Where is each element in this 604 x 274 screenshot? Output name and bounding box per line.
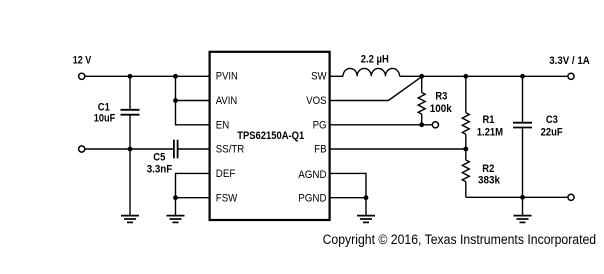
wire bottom right rail	[466, 196, 568, 198]
svg-text:SS/TR: SS/TR	[216, 144, 245, 156]
node junction C1 top	[128, 74, 133, 79]
ground symbol DEF/FSW	[167, 216, 185, 223]
svg-text:R3: R3	[435, 90, 447, 102]
ground symbol left	[121, 216, 139, 223]
svg-text:FB: FB	[314, 144, 327, 156]
wire DEF loop	[176, 173, 210, 197]
inductor L1 2.2uH	[343, 53, 400, 76]
wire PGND	[331, 197, 367, 199]
node junction SW/R3	[419, 74, 424, 79]
svg-text:C3: C3	[546, 114, 558, 126]
wire FB	[331, 148, 466, 150]
capacitor C5	[147, 140, 209, 176]
svg-text:100k: 100k	[430, 103, 453, 115]
wire FSW	[176, 197, 210, 199]
wire SW to inductor	[331, 75, 344, 77]
node junction AVIN branch top	[173, 74, 178, 79]
terminal 3.3V output	[568, 73, 574, 79]
svg-text:2.2 µH: 2.2 µH	[361, 53, 389, 65]
svg-text:1.21M: 1.21M	[477, 127, 503, 139]
node junction AGND/PGND	[364, 195, 369, 200]
resistor R2 383k	[462, 149, 500, 197]
wire PGND to ground	[365, 198, 367, 216]
wire AVIN horizontal	[176, 100, 210, 102]
node junction C3 bottom	[520, 195, 525, 200]
terminal 12V input	[79, 73, 85, 79]
terminal PG output	[432, 122, 438, 128]
wire input rail to PVIN	[85, 75, 209, 77]
svg-text:AGND: AGND	[298, 169, 326, 181]
svg-text:VOS: VOS	[306, 95, 327, 107]
wire C1 to ground	[129, 149, 131, 216]
wire inductor to output rail	[400, 75, 568, 77]
wire VOS with diagonal	[331, 77, 421, 100]
svg-text:TPS62150A-Q1: TPS62150A-Q1	[237, 130, 304, 142]
wire PG	[331, 124, 433, 126]
svg-text:C5: C5	[153, 152, 165, 164]
svg-text:AVIN: AVIN	[216, 95, 238, 107]
svg-text:R1: R1	[483, 114, 495, 126]
svg-text:3.3V / 1A: 3.3V / 1A	[549, 55, 590, 67]
node junction DEF/FSW	[173, 195, 178, 200]
svg-text:DEF: DEF	[216, 168, 236, 180]
svg-text:12 V: 12 V	[73, 54, 92, 66]
wire AVIN/EN vertical	[176, 76, 210, 125]
svg-text:Copyright © 2016, Texas Instru: Copyright © 2016, Texas Instruments Inco…	[323, 232, 596, 247]
wire FSW to ground	[175, 198, 177, 216]
op-amp U1 TPS62150A-Q1 box	[210, 52, 330, 220]
svg-text:R2: R2	[482, 163, 494, 175]
resistor R3 100k	[418, 76, 452, 125]
ground symbol output	[514, 216, 532, 223]
terminal GND output	[568, 194, 574, 200]
svg-text:EN: EN	[216, 119, 230, 131]
node junction PG/R3	[419, 122, 424, 127]
svg-text:PVIN: PVIN	[216, 71, 238, 83]
wire C3 ground stub	[522, 197, 524, 215]
svg-text:PGND: PGND	[298, 193, 326, 205]
node junction R1 top	[463, 74, 468, 79]
node junction C1 bottom / lower rail	[128, 147, 133, 152]
terminal GND input	[79, 146, 85, 152]
node junction AVIN	[173, 98, 178, 103]
capacitor C1	[94, 76, 140, 149]
capacitor C3	[513, 76, 563, 197]
wire AGND loop	[331, 173, 367, 197]
wire lower-left rail to C5	[85, 148, 173, 150]
svg-text:SW: SW	[311, 71, 327, 83]
svg-text:10uF: 10uF	[94, 113, 116, 125]
resistor R1 1.21M	[462, 76, 503, 149]
ground symbol AGND/PGND	[357, 216, 375, 223]
svg-text:PG: PG	[313, 119, 327, 131]
node junction C3 top	[520, 74, 525, 79]
svg-text:3.3nF: 3.3nF	[147, 164, 173, 176]
svg-text:22uF: 22uF	[541, 127, 563, 139]
svg-text:383k: 383k	[478, 174, 501, 186]
node junction FB	[463, 147, 468, 152]
svg-text:FSW: FSW	[216, 193, 238, 205]
